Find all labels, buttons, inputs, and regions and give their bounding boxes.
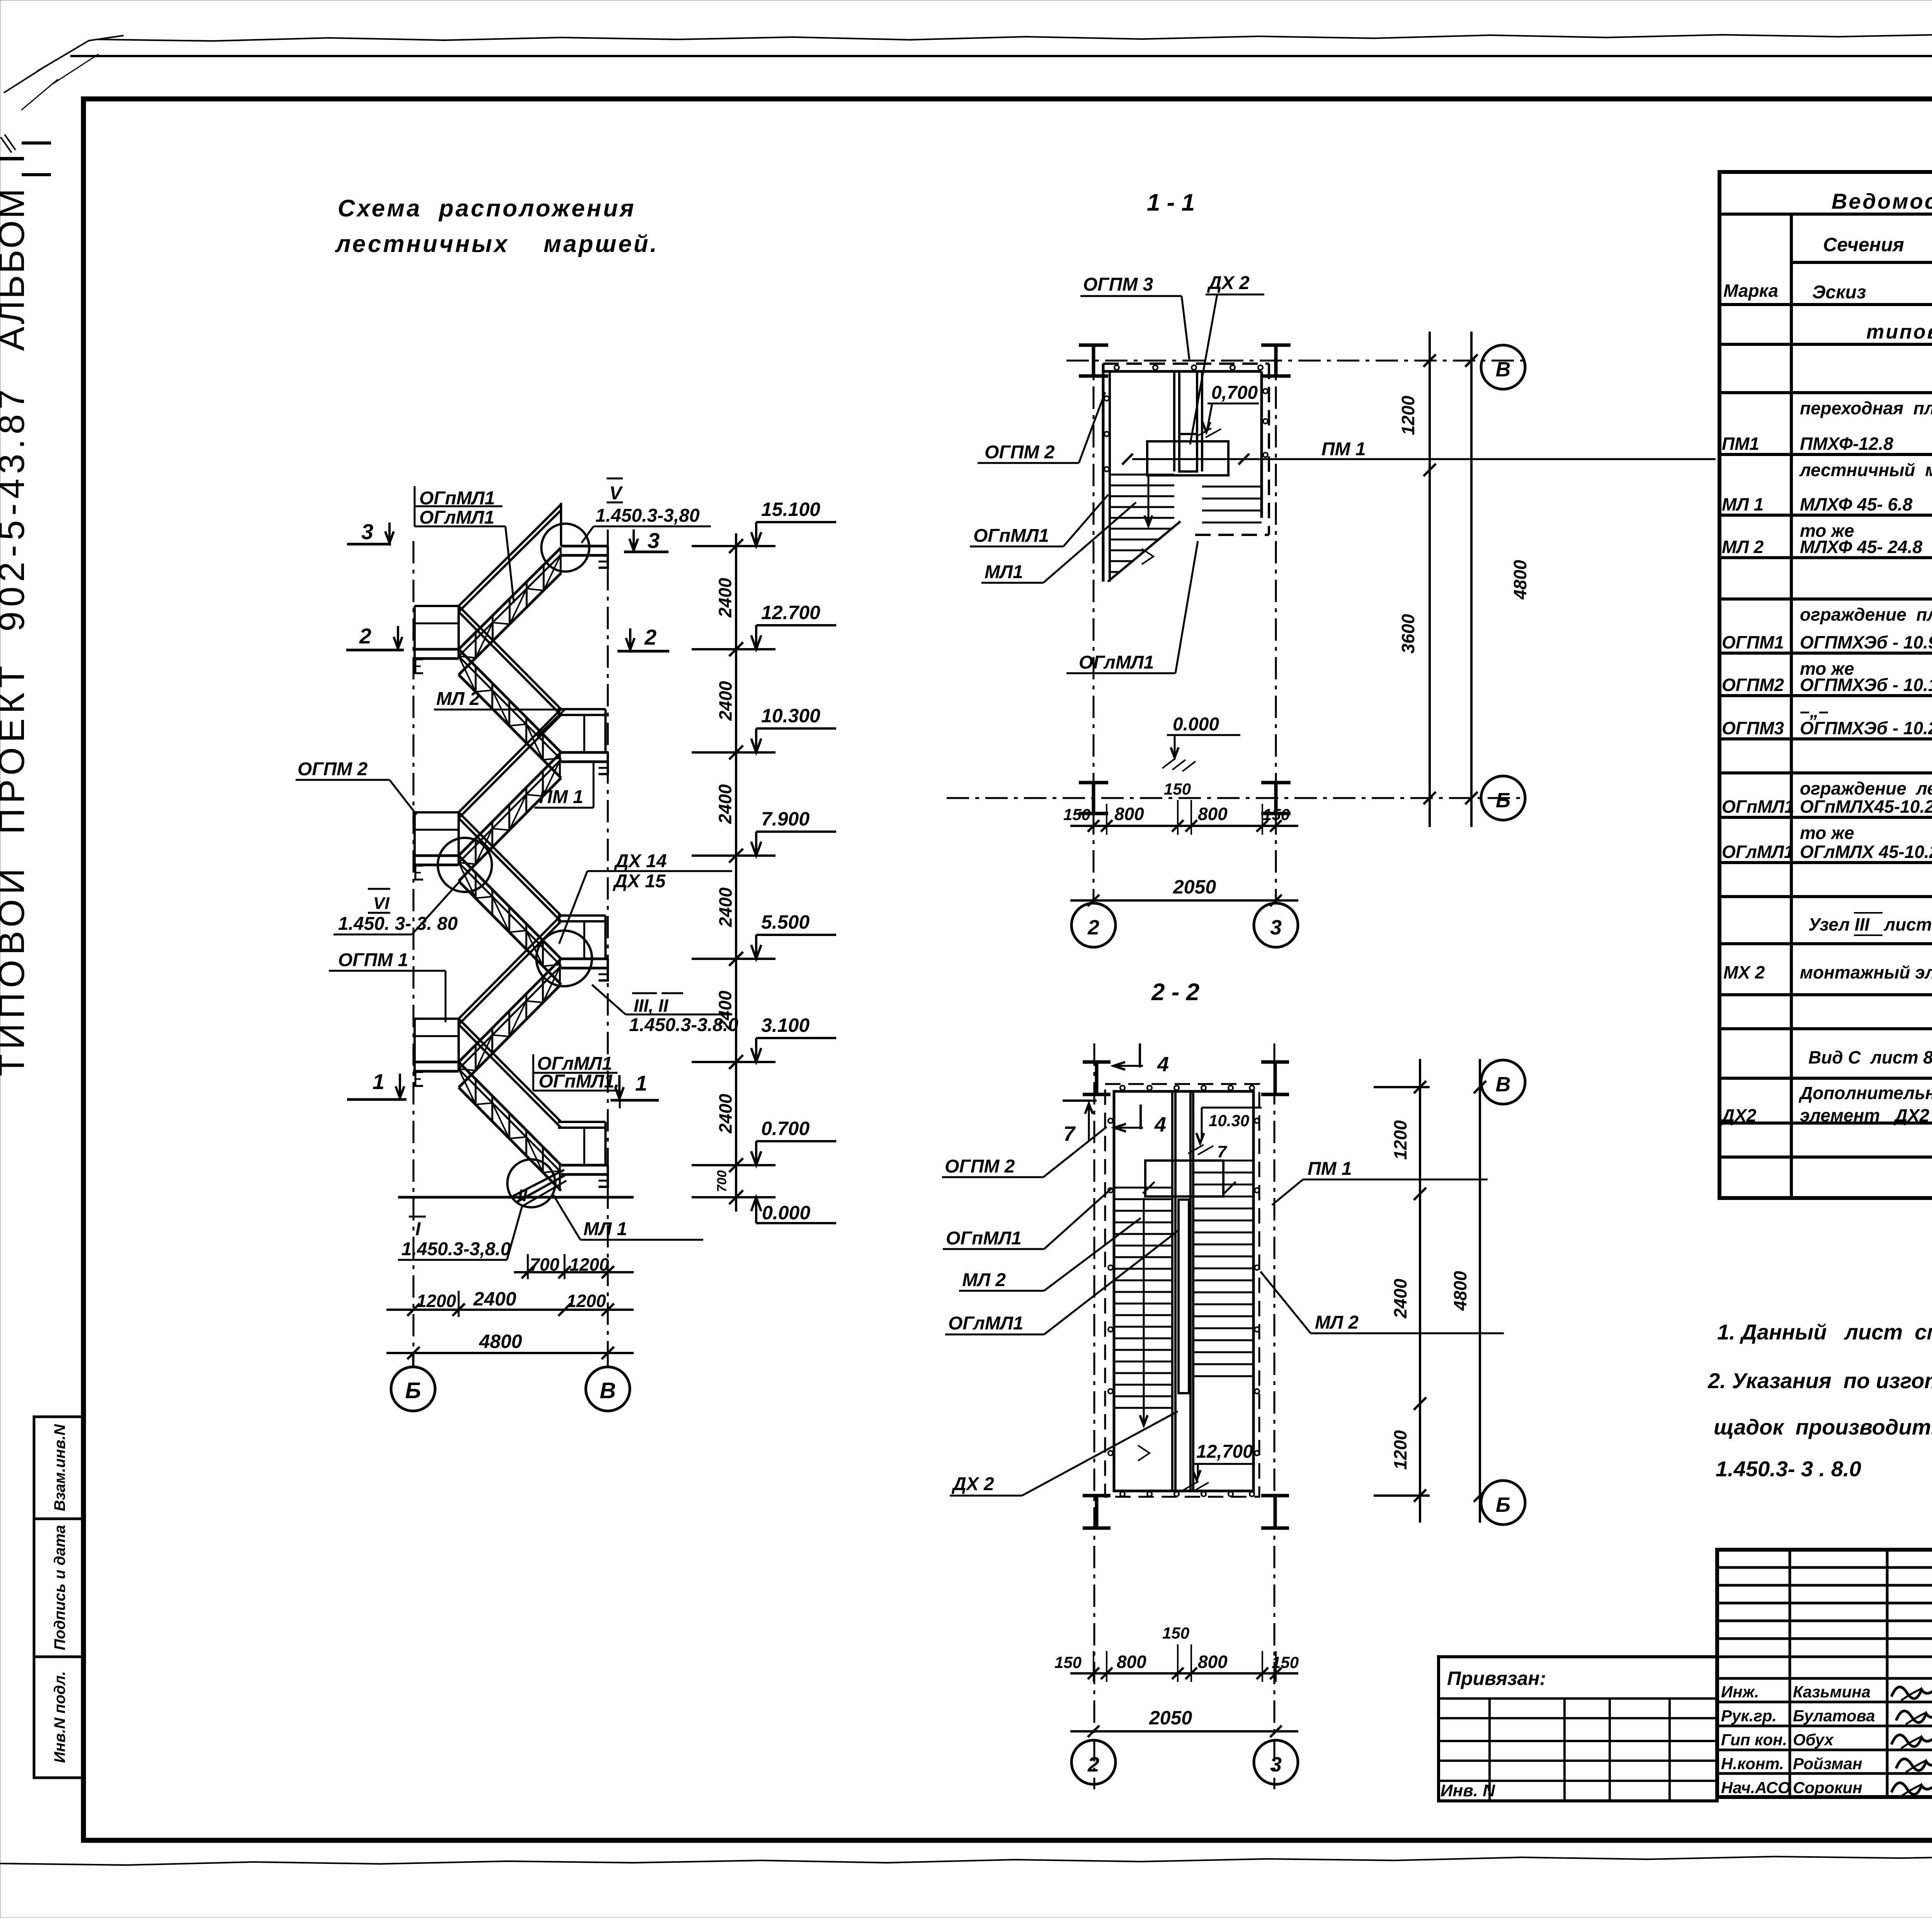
svg-text:АЛЬБОМ I: АЛЬБОМ I (0, 152, 32, 351)
section 2-2 cut mark 4 inner (1139, 1105, 1142, 1129)
svg-text:Вид С лист 8: Вид С лист 8 (1808, 1047, 1932, 1067)
svg-text:2050: 2050 (1173, 876, 1216, 898)
svg-text:150: 150 (1164, 780, 1191, 798)
axis circle В section 1-1 (1481, 345, 1525, 389)
svg-text:Сечения: Сечения (1823, 234, 1904, 255)
top-left corner scribble (4, 36, 124, 93)
dim 1200 2400 1200 (386, 1309, 634, 1311)
svg-text:5.500: 5.500 (761, 911, 810, 933)
svg-text:12.700: 12.700 (761, 602, 820, 623)
svg-text:ДХ 2: ДХ 2 (951, 1474, 994, 1494)
svg-text:4: 4 (1154, 1113, 1166, 1136)
svg-text:Эскиз: Эскиз (1812, 282, 1866, 303)
axis circle Б section 2-2 (1481, 1481, 1525, 1525)
svg-text:150: 150 (1063, 805, 1090, 824)
svg-text:2050: 2050 (1149, 1707, 1192, 1729)
svg-text:Узел III лист 8: Узел III лист 8 (1808, 914, 1932, 934)
svg-text:2. Указания по изготовлению и: 2. Указания по изготовлению и монтажу ле… (1708, 1368, 1932, 1393)
sheet top rule (70, 55, 1932, 57)
svg-text:15.100: 15.100 (761, 499, 820, 520)
svg-text:1200: 1200 (570, 1254, 609, 1275)
section 2-2 top landing (1145, 1161, 1223, 1196)
section 2-2 central slot (1179, 1200, 1189, 1393)
flight 3.100-0.700 (459, 1062, 561, 1165)
svg-text:ОГпМЛ1: ОГпМЛ1 (946, 1228, 1022, 1249)
svg-text:МЛ 2: МЛ 2 (1722, 537, 1764, 557)
svg-text:Обух: Обух (1793, 1731, 1834, 1749)
svg-text:4800: 4800 (1450, 1271, 1470, 1311)
svg-text:В: В (1496, 1073, 1511, 1096)
svg-text:Б: Б (1496, 1493, 1510, 1516)
svg-text:3: 3 (648, 528, 660, 553)
svg-text:ОГпМЛ1.: ОГпМЛ1. (539, 1071, 619, 1092)
svg-text:монтажный элемент МХ2: монтажный элемент МХ2 (1800, 962, 1932, 982)
svg-text:ОГлМЛ1: ОГлМЛ1 (1079, 652, 1154, 673)
svg-text:ДХ 14: ДХ 14 (614, 851, 667, 871)
svg-text:0.700: 0.700 (761, 1118, 810, 1139)
axis circle Б section 1-1 (1481, 776, 1525, 820)
section 2-2 mark 10.30 (1202, 1107, 1262, 1109)
svg-text:Ведомость: Ведомость (1832, 189, 1932, 213)
svg-text:ОГпМЛХ45-10.24: ОГпМЛХ45-10.24 (1800, 796, 1932, 817)
svg-text:типовые: типовые (1866, 321, 1932, 343)
svg-text:ОГПМ3: ОГПМ3 (1722, 718, 1784, 738)
node circle V at top (541, 524, 589, 572)
svg-text:1200: 1200 (1390, 1430, 1410, 1470)
svg-text:МЛ1: МЛ1 (985, 562, 1023, 582)
svg-text:Инж.: Инж. (1721, 1683, 1759, 1701)
svg-text:150: 150 (1162, 1624, 1189, 1642)
section 1-1 level Б dashdot (947, 797, 1526, 799)
svg-text:МЛ 2: МЛ 2 (1315, 1312, 1359, 1333)
svg-text:лестничный марш: лестничный марш (1799, 460, 1932, 480)
svg-text:ОГПМ 1: ОГПМ 1 (338, 950, 408, 970)
svg-text:1.450.3-3,8.0: 1.450.3-3,8.0 (401, 1239, 511, 1259)
svg-text:ПМХФ-12.8: ПМХФ-12.8 (1800, 434, 1893, 454)
svg-text:ПМ 1: ПМ 1 (1308, 1159, 1352, 1179)
svg-text:ТИПОВОЙ ПРОЕКТ 902-5-43.87: ТИПОВОЙ ПРОЕКТ 902-5-43.87 (0, 385, 32, 1076)
flight МЛ2 12.700-15.100 (459, 548, 561, 649)
torn paper bottom edge (0, 1854, 1932, 1865)
svg-text:12,700: 12,700 (1196, 1441, 1253, 1462)
axis circle 3 section 2-2 (1254, 1740, 1298, 1784)
svg-text:Инв. N: Инв. N (1440, 1781, 1495, 1800)
elevation axis Б vertical (413, 541, 415, 1368)
signatures squiggles (1891, 1682, 1932, 1698)
ground line 0.000 (398, 1196, 634, 1199)
svg-text:ПМ1: ПМ1 (1722, 434, 1759, 454)
node circle VI at 7.900 (438, 838, 492, 892)
Привязан box (1439, 1657, 1717, 1801)
svg-text:МЛ 2: МЛ 2 (962, 1270, 1006, 1290)
level dimension line (735, 533, 737, 1212)
svg-text:1200: 1200 (566, 1291, 606, 1311)
section 2-2 level В line (1374, 1086, 1430, 1088)
svg-text:Ройзман: Ройзман (1793, 1755, 1862, 1773)
svg-text:Рук.гр.: Рук.гр. (1721, 1707, 1777, 1725)
section 1-1 bottom dims (1070, 825, 1298, 827)
svg-text:Привязан:: Привязан: (1447, 1668, 1546, 1689)
section 1-1 walls (1102, 364, 1105, 582)
svg-text:800: 800 (1198, 804, 1228, 824)
section 1-1 left treads (1110, 474, 1174, 476)
svg-text:Взам.инв.N: Взам.инв.N (51, 1424, 68, 1511)
svg-text:3: 3 (1270, 916, 1282, 939)
svg-text:ОГПМ 2: ОГПМ 2 (298, 759, 368, 779)
svg-text:МХ 2: МХ 2 (1723, 962, 1765, 982)
svg-text:Инв.N подл.: Инв.N подл. (51, 1671, 68, 1763)
svg-text:2 - 2: 2 - 2 (1151, 979, 1199, 1006)
section 2-2 axis 3 vertical (1274, 1043, 1276, 1789)
svg-text:МЛХФ 45- 6.8: МЛХФ 45- 6.8 (1800, 494, 1913, 514)
svg-text:4800: 4800 (1510, 560, 1530, 600)
section 1-1 landing plate (1147, 441, 1228, 475)
level flags (692, 545, 776, 547)
svg-text:VI: VI (373, 894, 389, 913)
svg-text:ОГпМЛ1: ОГпМЛ1 (973, 526, 1049, 546)
section 1-1 dim 2050 (1070, 899, 1298, 902)
svg-text:7: 7 (1217, 1142, 1228, 1161)
svg-text:ОГПМ 2: ОГПМ 2 (945, 1156, 1015, 1177)
svg-text:I: I (415, 1219, 421, 1239)
section 2-2 right dims (1419, 1059, 1421, 1523)
dim 700 1200 (514, 1271, 634, 1273)
svg-text:Марка: Марка (1723, 281, 1778, 301)
svg-text:1.450. 3- 3. 80: 1.450. 3- 3. 80 (338, 914, 458, 934)
table Ведомость элементов: outer (1719, 172, 1932, 1198)
svg-text:0.000: 0.000 (762, 1202, 810, 1224)
svg-text:ОГПМ 2: ОГПМ 2 (985, 442, 1055, 463)
flight 3.100-5.500 (459, 959, 561, 1062)
svg-text:Казьмина: Казьмина (1793, 1683, 1871, 1701)
svg-text:2400: 2400 (716, 1094, 736, 1134)
svg-text:Подпись и дата: Подпись и дата (51, 1525, 68, 1650)
axis circle В section 2-2 (1481, 1060, 1525, 1104)
flight 7.900-10.300 (459, 752, 561, 856)
svg-text:1: 1 (635, 1071, 647, 1095)
svg-text:2400: 2400 (715, 578, 735, 618)
svg-text:800: 800 (1114, 804, 1144, 824)
landing 0.700 (561, 1164, 608, 1167)
svg-text:800: 800 (1117, 1652, 1146, 1672)
svg-text:2: 2 (1087, 916, 1099, 939)
svg-text:2: 2 (644, 625, 656, 649)
section 2-2 central stringers (1171, 1091, 1173, 1491)
svg-text:ОГлМЛ1: ОГлМЛ1 (419, 507, 494, 528)
section 1-1 right treads (1202, 486, 1262, 488)
svg-text:0,700: 0,700 (1211, 383, 1258, 403)
svg-text:3600: 3600 (1398, 614, 1418, 654)
svg-text:переходная площадка: переходная площадка (1800, 398, 1932, 418)
svg-text:1200: 1200 (1398, 395, 1418, 435)
svg-text:ДХ 2: ДХ 2 (1207, 273, 1250, 293)
section 2-2 inner box (1114, 1091, 1253, 1491)
svg-text:2: 2 (1087, 1753, 1099, 1776)
svg-text:II: II (518, 1186, 527, 1205)
svg-text:3.100: 3.100 (761, 1014, 810, 1036)
torn paper top edge (97, 34, 1932, 41)
section 1-1 right dims (1429, 332, 1431, 827)
svg-text:МЛ 1: МЛ 1 (1722, 494, 1764, 514)
platform 12.700 (415, 605, 459, 607)
svg-text:Схема расположения: Схема расположения (338, 195, 636, 222)
svg-text:1 - 1: 1 - 1 (1147, 189, 1195, 216)
svg-text:4800: 4800 (479, 1331, 522, 1352)
serif marks of roman I (22, 141, 51, 145)
svg-text:лестничных маршей.: лестничных маршей. (335, 231, 659, 257)
svg-text:МЛХФ 45- 24.8: МЛХФ 45- 24.8 (1800, 537, 1922, 557)
svg-text:700: 700 (530, 1254, 560, 1275)
section 2-2 outer dashed box (1105, 1084, 1259, 1497)
elevation axis В vertical (607, 529, 609, 1368)
svg-text:150: 150 (1054, 1653, 1082, 1671)
svg-text:1.450.3- 3 . 8.0: 1.450.3- 3 . 8.0 (1716, 1457, 1861, 1481)
svg-text:10.30: 10.30 (1209, 1111, 1249, 1130)
svg-text:V: V (609, 483, 623, 504)
svg-text:800: 800 (1198, 1652, 1228, 1672)
svg-text:ДХ 15: ДХ 15 (612, 871, 666, 892)
svg-text:ОГПМХЭб - 10.12: ОГПМХЭб - 10.12 (1800, 675, 1932, 695)
axis circle Б (391, 1367, 435, 1411)
section 1-1 axis 3 vertical (1275, 348, 1277, 903)
landing 5.500 (561, 958, 608, 960)
svg-text:ОГПМ1: ОГПМ1 (1722, 632, 1784, 652)
svg-text:Дополнительный: Дополнительный (1798, 1083, 1932, 1103)
svg-text:2400: 2400 (715, 990, 735, 1031)
section 1-1 wall bolts (1114, 365, 1119, 370)
svg-text:Б: Б (1496, 789, 1510, 812)
svg-text:2400: 2400 (716, 681, 736, 721)
svg-text:1200: 1200 (417, 1291, 456, 1311)
svg-text:ПМ 1: ПМ 1 (539, 787, 583, 807)
svg-text:4: 4 (1157, 1053, 1169, 1076)
svg-text:Гип кон.: Гип кон. (1721, 1731, 1787, 1749)
section 2-2 cut mark 7 left (1063, 1099, 1097, 1102)
svg-text:ОГПМ2: ОГПМ2 (1722, 675, 1784, 695)
svg-text:3: 3 (361, 519, 373, 544)
svg-text:10.300: 10.300 (761, 705, 820, 727)
svg-text:3: 3 (1270, 1753, 1282, 1776)
axis circle 2 section 1-1 (1071, 903, 1116, 947)
section 1-1 axis 2 vertical (1093, 348, 1095, 903)
svg-text:ОГПМ 3: ОГПМ 3 (1083, 274, 1153, 295)
I-beam column symbols section 1-1 (1092, 345, 1095, 376)
section 1-1 pm1 line (1132, 458, 1716, 460)
svg-text:ОГПМХЭб - 10.21: ОГПМХЭб - 10.21 (1800, 718, 1932, 738)
svg-text:то же: то же (1800, 823, 1854, 843)
entry flight МЛ1 (512, 1170, 564, 1196)
section 2-2 left treads (1114, 1187, 1172, 1189)
svg-text:ОГПМХЭб - 10.9: ОГПМХЭб - 10.9 (1800, 632, 1932, 652)
axis circle В (586, 1367, 630, 1411)
section 2-2 level Б line (1374, 1494, 1430, 1497)
svg-text:2: 2 (359, 624, 371, 648)
svg-text:1: 1 (372, 1069, 384, 1094)
svg-text:ОГлМЛ1: ОГлМЛ1 (1722, 842, 1794, 862)
svg-text:щадок производить в соответ: щадок производить в соответствии с указа… (1714, 1415, 1932, 1439)
svg-text:ПМ 1: ПМ 1 (1321, 439, 1366, 460)
svg-text:ограждение площадок: ограждение площадок (1800, 604, 1932, 625)
svg-text:1.450.3-3,80: 1.450.3-3,80 (595, 505, 700, 526)
platform 3.100 (415, 1018, 459, 1020)
section 1-1 down arrow (1148, 475, 1150, 522)
svg-text:2400: 2400 (716, 887, 736, 928)
dim 4800 (386, 1352, 634, 1354)
svg-text:ОГлМЛХ 45-10.24: ОГлМЛХ 45-10.24 (1800, 842, 1932, 862)
title block outer (1717, 1550, 1932, 1797)
svg-text:III, II: III, II (634, 996, 669, 1016)
svg-text:МЛ 1: МЛ 1 (583, 1219, 627, 1239)
section 2-2 bolts (1120, 1086, 1125, 1090)
section 1-1 central channel ДХ2 (1173, 371, 1175, 471)
section 2-2 cut mark 4 top (1139, 1043, 1141, 1067)
svg-text:ограждение лестниц: ограждение лестниц (1800, 778, 1932, 798)
svg-text:2400: 2400 (473, 1288, 516, 1310)
axis circle 2 section 2-2 (1071, 1740, 1116, 1784)
table vertical rules (1790, 214, 1793, 1198)
svg-text:7: 7 (1063, 1122, 1076, 1145)
svg-text:1. Данный лист смотреть со: 1. Данный лист смотреть совместно с лист… (1717, 1320, 1932, 1344)
flight 7.900-5.500 (459, 856, 561, 959)
section 2-2 axis 2 vertical (1094, 1043, 1095, 1789)
svg-text:элемент ДХ2: элемент ДХ2 (1800, 1105, 1930, 1125)
axis circle 3 section 1-1 (1254, 903, 1298, 947)
section 2-2 dim 2050 (1070, 1730, 1298, 1732)
svg-text:1200: 1200 (1390, 1120, 1410, 1160)
svg-text:0.000: 0.000 (1173, 714, 1219, 735)
svg-text:Н.конт.: Н.конт. (1721, 1755, 1784, 1773)
section 1-1 level В dashdot (1066, 360, 1526, 362)
svg-text:ДХ2: ДХ2 (1720, 1105, 1757, 1125)
section 2-2 down arrow (1143, 1198, 1145, 1422)
section 2-2 right treads (1193, 1160, 1253, 1162)
table header sub rules (1791, 261, 1932, 264)
svg-text:Б: Б (405, 1378, 421, 1403)
svg-text:Сорокин: Сорокин (1793, 1778, 1862, 1797)
svg-text:МЛ 2: МЛ 2 (436, 689, 480, 709)
node circle II at base (507, 1159, 555, 1207)
section 2-2 bottom dims (1070, 1672, 1298, 1675)
svg-text:Булатова: Булатова (1793, 1707, 1875, 1725)
I-beam column marks section 2-2 (1095, 1062, 1099, 1094)
svg-text:7.900: 7.900 (761, 808, 810, 830)
svg-text:700: 700 (715, 1170, 730, 1192)
svg-text:В: В (600, 1378, 616, 1403)
landing 15.100 top (561, 545, 608, 548)
central signature grid (1717, 1566, 1932, 1569)
table horizontal rules (1719, 213, 1932, 216)
svg-text:ОГпМЛ1: ОГпМЛ1 (1722, 796, 1794, 817)
svg-text:Нач.АСО: Нач.АСО (1721, 1778, 1790, 1797)
landing 10.300 (561, 751, 608, 754)
section 1-1 cut diagonal (1108, 521, 1180, 582)
left margin stamp boxes (34, 1417, 83, 1778)
svg-text:2400: 2400 (1390, 1278, 1410, 1319)
flight 12.700-10.300 (459, 649, 561, 752)
node circle at 5.500 (536, 931, 592, 986)
svg-text:2400: 2400 (715, 784, 735, 824)
svg-text:ОГлМЛ1: ОГлМЛ1 (948, 1313, 1023, 1334)
svg-text:В: В (1496, 358, 1511, 381)
platform 7.900 (415, 811, 459, 813)
